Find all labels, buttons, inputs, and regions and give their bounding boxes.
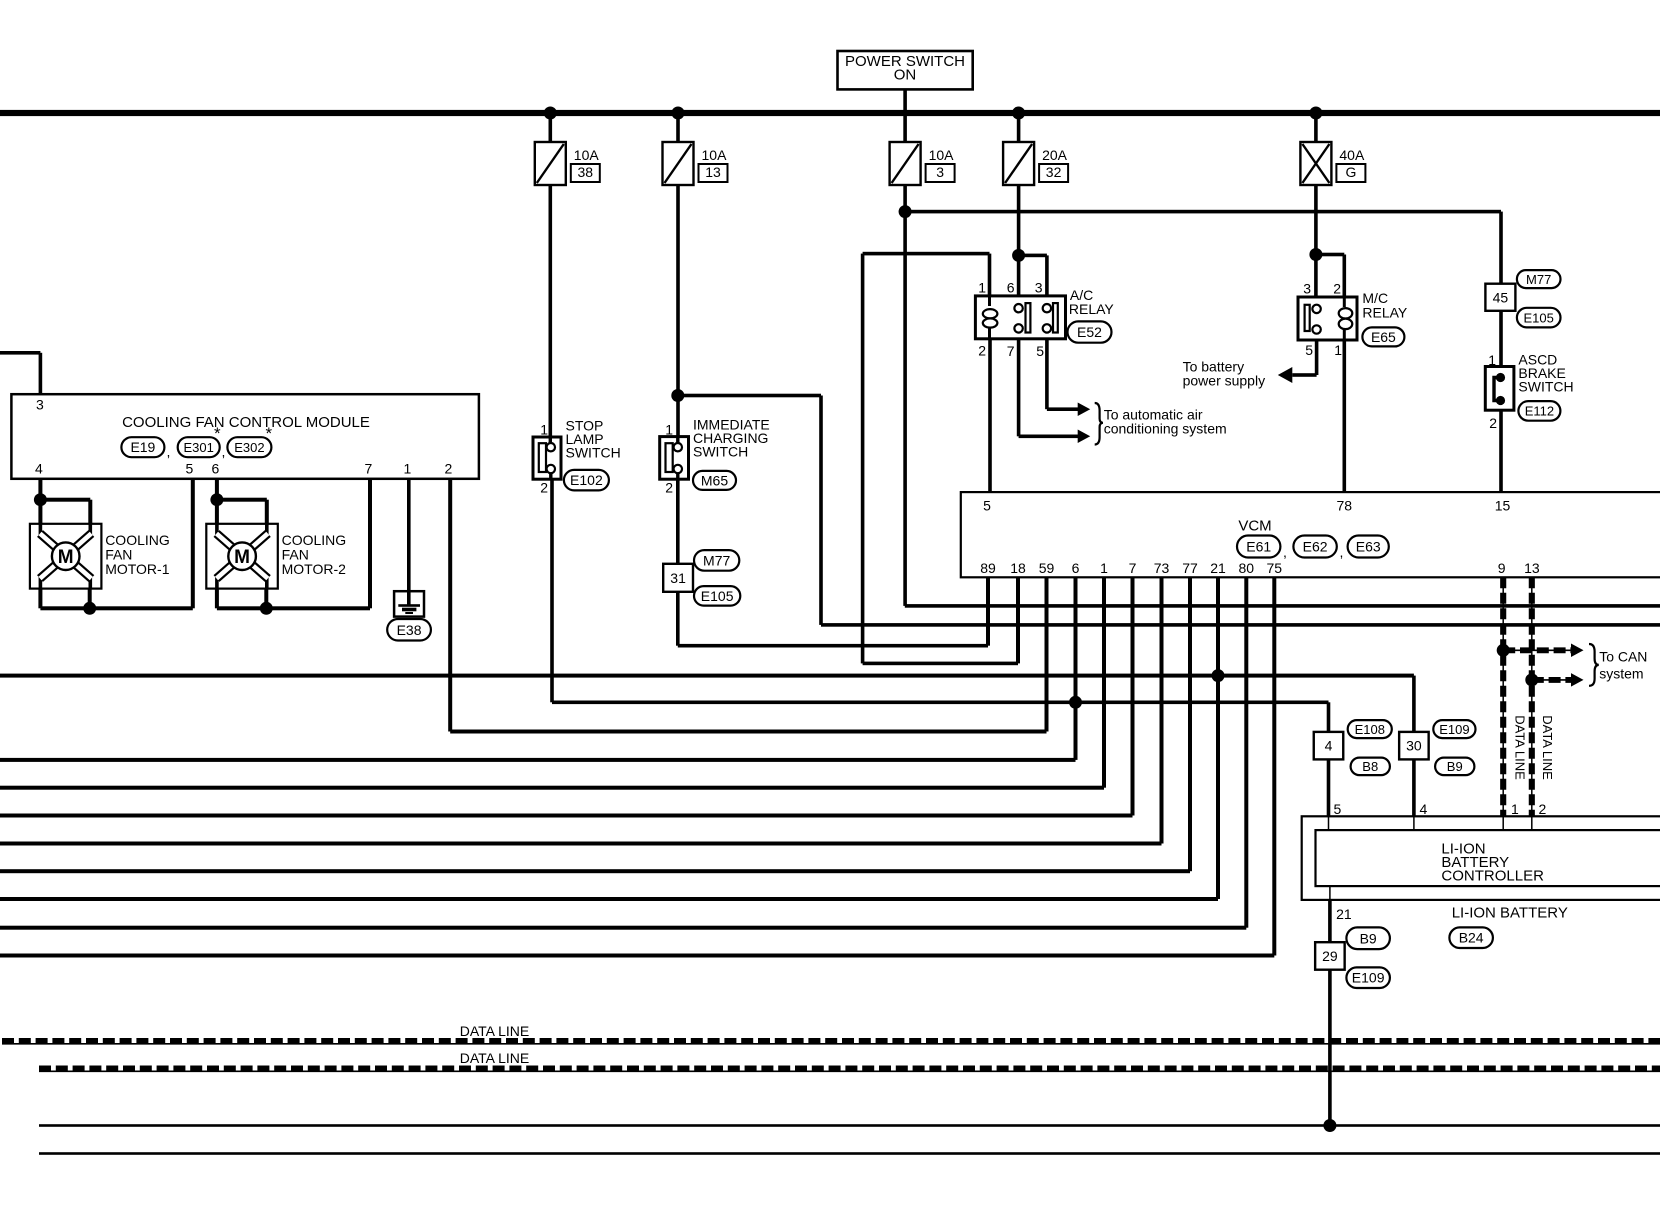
brace for A/C system arrows bbox=[1095, 403, 1103, 445]
svg-text:E109: E109 bbox=[1352, 970, 1385, 986]
wire motor 2 to module pin 7 bbox=[215, 589, 219, 609]
svg-text:77: 77 bbox=[1182, 560, 1198, 576]
svg-text:1: 1 bbox=[1334, 342, 1342, 358]
svg-text:4: 4 bbox=[1325, 738, 1333, 754]
connector E65 bbox=[1362, 327, 1404, 346]
connector B9 at 30 bbox=[1435, 758, 1474, 776]
svg-text:5: 5 bbox=[186, 461, 194, 477]
wire fuse 13 to immediate charging switch pin 1 bbox=[676, 185, 680, 437]
wire bus to fuse 32 bbox=[1017, 113, 1021, 142]
svg-text:RELAY: RELAY bbox=[1362, 305, 1408, 321]
svg-text:MOTOR-1: MOTOR-1 bbox=[105, 561, 170, 577]
ASCD brake switch E112 bbox=[1485, 367, 1514, 411]
svg-text:,: , bbox=[1340, 544, 1344, 560]
svg-text:80: 80 bbox=[1239, 560, 1255, 576]
svg-text:system: system bbox=[1599, 666, 1643, 682]
svg-text:40A: 40A bbox=[1339, 147, 1365, 163]
svg-text:E301: E301 bbox=[184, 440, 214, 455]
svg-text:5: 5 bbox=[1036, 343, 1044, 359]
junction on ground bus bbox=[1323, 1119, 1336, 1132]
A/C relay E52 bbox=[975, 296, 1065, 339]
svg-text:E108: E108 bbox=[1355, 722, 1385, 737]
wire bus down to connector 30 bbox=[1412, 676, 1416, 732]
connector E105 at 31 bbox=[694, 586, 740, 606]
wire module pin 1 to ground bbox=[407, 479, 411, 591]
wire fuse 32 to A/C relay bbox=[1017, 185, 1021, 296]
svg-text:,: , bbox=[1283, 544, 1287, 560]
wire stop lamp line down to connector 4 bbox=[1327, 702, 1331, 732]
svg-text:5: 5 bbox=[1305, 342, 1313, 358]
svg-text:*: * bbox=[214, 424, 221, 443]
ground E38 bbox=[394, 591, 424, 616]
svg-text:M77: M77 bbox=[703, 552, 730, 568]
cooling fan motor 2 bbox=[206, 524, 277, 589]
wire fuse 3 run to right edge bbox=[905, 604, 1660, 608]
brace for CAN arrows bbox=[1589, 644, 1599, 686]
wire fuse 38 to stop lamp switch pin 1 bbox=[549, 185, 553, 437]
svg-text:4: 4 bbox=[1420, 801, 1428, 817]
connector E62 bbox=[1293, 536, 1336, 558]
A/C relay contact 6-7 bbox=[1014, 304, 1022, 312]
VCM E61 E62 E63 bbox=[961, 492, 1660, 577]
connector E301 bbox=[178, 437, 220, 457]
svg-text:13: 13 bbox=[705, 164, 721, 180]
connector B8 bbox=[1351, 758, 1390, 776]
svg-text:SWITCH: SWITCH bbox=[693, 444, 748, 460]
svg-text:20A: 20A bbox=[1042, 147, 1068, 163]
wire VCM pin 1 run bbox=[1102, 577, 1106, 787]
svg-text:1: 1 bbox=[1100, 560, 1108, 576]
svg-text:2: 2 bbox=[1489, 415, 1497, 431]
arrow to automatic air conditioning (upper) bbox=[1078, 402, 1091, 416]
connector E102 bbox=[564, 470, 609, 491]
main power bus (POWER SWITCH ON feed) bbox=[0, 110, 1660, 116]
svg-text:5: 5 bbox=[1334, 801, 1342, 817]
svg-text:ON: ON bbox=[894, 67, 917, 84]
wire connector 29 to ground bus bbox=[1328, 970, 1332, 1126]
wire immediate charging run to right edge (VCM pin 80 feed) bbox=[821, 623, 1660, 627]
wire VCM pin 21 run / battery controller pin 4 bus bbox=[1216, 577, 1220, 899]
dashed arrow to CAN system 1 bbox=[1503, 649, 1571, 651]
svg-text:DATA LINE: DATA LINE bbox=[1513, 715, 1528, 780]
wire VCM pin 80 down-left run bbox=[1244, 577, 1248, 927]
wire module pin 4 to motor 1 bbox=[38, 479, 42, 524]
svg-text:5: 5 bbox=[983, 498, 991, 514]
svg-text:10A: 10A bbox=[574, 147, 600, 163]
wire M/C relay pin 5 to battery power supply arrow bbox=[1315, 340, 1319, 375]
svg-text:MOTOR-2: MOTOR-2 bbox=[282, 561, 347, 577]
svg-text:M: M bbox=[234, 547, 250, 568]
wire connector 30 to controller pin 4 bbox=[1412, 759, 1416, 816]
svg-text:SWITCH: SWITCH bbox=[1518, 379, 1573, 395]
svg-text:3: 3 bbox=[1303, 281, 1311, 297]
fuse 40A G bbox=[1300, 142, 1331, 185]
svg-text:E102: E102 bbox=[570, 472, 603, 488]
svg-text:10A: 10A bbox=[929, 147, 955, 163]
svg-text:conditioning system: conditioning system bbox=[1104, 421, 1227, 437]
svg-text:LI-ION BATTERY: LI-ION BATTERY bbox=[1452, 905, 1568, 922]
li-ion battery controller box bbox=[1316, 830, 1660, 886]
ground rail 1 bbox=[39, 1124, 1660, 1127]
svg-text:VCM: VCM bbox=[1238, 518, 1271, 535]
svg-text:,: , bbox=[222, 444, 226, 460]
junction VCM pin 6 with stop-lamp/controller-5 line bbox=[1069, 696, 1082, 709]
junction at immediate charging switch feed bbox=[671, 389, 684, 402]
svg-text:M77: M77 bbox=[1526, 272, 1551, 287]
M/C relay coil bbox=[1343, 297, 1346, 307]
svg-text:4: 4 bbox=[35, 461, 43, 477]
wire VCM pin 73 run bbox=[1160, 577, 1164, 843]
connector 4 (E108/B8) bbox=[1314, 732, 1344, 760]
svg-text:10A: 10A bbox=[702, 147, 728, 163]
svg-text:31: 31 bbox=[670, 570, 686, 586]
wire M/C relay pin 1 to VCM pin 78 bbox=[1343, 340, 1347, 492]
svg-text:18: 18 bbox=[1010, 560, 1026, 576]
svg-text:15: 15 bbox=[1495, 498, 1511, 514]
svg-text:M65: M65 bbox=[701, 472, 728, 488]
wire connector 31 to VCM pin 89 bbox=[676, 592, 680, 646]
svg-text:73: 73 bbox=[1154, 560, 1170, 576]
connector E61 bbox=[1237, 536, 1280, 558]
svg-text:DATA LINE: DATA LINE bbox=[1540, 715, 1555, 780]
wire VCM pin 18 run (from A/C relay pin 1) bbox=[863, 662, 1018, 666]
svg-text:75: 75 bbox=[1267, 560, 1283, 576]
M/C relay E65 bbox=[1298, 297, 1357, 340]
junction CAN branch 1 bbox=[1497, 644, 1510, 657]
dashed arrow to CAN system 2 bbox=[1532, 679, 1572, 681]
connector M65 bbox=[693, 471, 736, 490]
svg-text:7: 7 bbox=[1007, 343, 1015, 359]
POWER SWITCH ON box bbox=[838, 51, 973, 89]
svg-text:2: 2 bbox=[978, 343, 986, 359]
svg-text:7: 7 bbox=[1129, 560, 1137, 576]
junction motor 2 positive bbox=[210, 493, 223, 506]
svg-text:B9: B9 bbox=[1360, 930, 1377, 946]
cooling fan motor 1 bbox=[30, 524, 102, 589]
arrow to automatic air conditioning (lower) bbox=[1078, 430, 1091, 444]
junction motor 1 positive bbox=[34, 493, 47, 506]
wire branch to A/C relay pin 3 bbox=[1019, 254, 1047, 258]
thin feedthrough wires into controller bbox=[1328, 816, 1330, 830]
svg-text:32: 32 bbox=[1046, 164, 1062, 180]
svg-text:3: 3 bbox=[36, 397, 44, 413]
fuse 10A 3 bbox=[890, 142, 921, 185]
svg-text:1: 1 bbox=[540, 422, 548, 438]
wire into cooling fan control module pin 3 bbox=[0, 351, 40, 355]
connector M77 at 31 bbox=[694, 550, 739, 571]
svg-text:CONTROLLER: CONTROLLER bbox=[1441, 868, 1544, 885]
connector 31 (M77/E105) bbox=[663, 564, 693, 592]
junction motor 1 negative bbox=[83, 602, 96, 615]
junction motor 2 negative bbox=[260, 602, 273, 615]
wire A/C relay pin 2 to VCM pin 5 bbox=[988, 339, 992, 492]
svg-text:45: 45 bbox=[1493, 289, 1509, 305]
wire VCM pin 75 down-left run bbox=[1272, 577, 1276, 955]
connector E112 bbox=[1518, 401, 1560, 421]
wire VCM pin 6 run bbox=[1074, 577, 1078, 760]
wire module pin 6 to motor 2 bbox=[215, 479, 219, 524]
wire A/C relay pin 7 to A/C system arrow bbox=[1017, 339, 1021, 437]
connector B24 bbox=[1449, 927, 1493, 948]
svg-text:*: * bbox=[266, 424, 273, 443]
svg-text:21: 21 bbox=[1336, 906, 1352, 922]
svg-text:E65: E65 bbox=[1371, 329, 1396, 345]
svg-text:E63: E63 bbox=[1356, 539, 1381, 555]
svg-text:38: 38 bbox=[578, 164, 594, 180]
M/C relay contact 3-5 bbox=[1305, 305, 1310, 331]
svg-text:2: 2 bbox=[665, 480, 673, 496]
fuse 10A 13 bbox=[663, 142, 694, 185]
svg-text:1: 1 bbox=[1511, 801, 1519, 817]
cooling fan control module box bbox=[11, 394, 479, 479]
svg-text:30: 30 bbox=[1406, 738, 1422, 754]
connector E108 bbox=[1348, 720, 1392, 738]
svg-text:To CAN: To CAN bbox=[1599, 649, 1647, 665]
junction on bus at fuse 38 bbox=[544, 107, 557, 120]
connector E105 at 45 bbox=[1517, 308, 1561, 328]
svg-text:E302: E302 bbox=[234, 440, 264, 455]
svg-text:M: M bbox=[58, 547, 74, 568]
wire bus to fuse 13 bbox=[676, 113, 680, 142]
wire VCM pin 77 run bbox=[1188, 577, 1192, 871]
svg-text:59: 59 bbox=[1039, 560, 1055, 576]
wire fuse 3 down bbox=[903, 185, 907, 606]
svg-text:13: 13 bbox=[1524, 560, 1540, 576]
junction CAN branch 2 bbox=[1525, 673, 1538, 686]
wire from A/C relay pin 1 to the left and down (to VCM pin 18 run) bbox=[863, 252, 990, 256]
junction on bus at fuse G bbox=[1309, 107, 1322, 120]
svg-text:E61: E61 bbox=[1246, 539, 1271, 555]
svg-text:E105: E105 bbox=[701, 588, 734, 604]
svg-text:1: 1 bbox=[404, 461, 412, 477]
wire bus to fuse 38 bbox=[549, 113, 553, 142]
connector E52 bbox=[1068, 321, 1112, 342]
connector E63 bbox=[1348, 536, 1389, 558]
svg-text:89: 89 bbox=[980, 560, 996, 576]
junction on bus at fuse 13 bbox=[672, 107, 685, 120]
svg-text:RELAY: RELAY bbox=[1069, 301, 1115, 317]
wire stop lamp switch pin 2 to VCM pin 6 junction bbox=[550, 479, 554, 702]
DATA LINE horizontal 1 bbox=[2, 1043, 1660, 1045]
ground rail 2 bbox=[39, 1152, 1660, 1155]
svg-text:COOLING FAN CONTROL MODULE: COOLING FAN CONTROL MODULE bbox=[122, 414, 370, 431]
svg-text:3: 3 bbox=[1035, 280, 1043, 296]
li-ion battery outer box B24 bbox=[1302, 816, 1660, 900]
junction A/C relay feed bbox=[1012, 249, 1025, 262]
svg-text:E19: E19 bbox=[130, 439, 155, 455]
wire branch to M/C relay pin 2 bbox=[1316, 253, 1344, 257]
wire fuse G to M/C relay bbox=[1314, 185, 1318, 297]
A/C relay coil bbox=[988, 296, 991, 306]
wire A/C relay pin 5 to A/C system arrow bbox=[1045, 339, 1049, 409]
DATA LINE from VCM pin 9 bbox=[1502, 577, 1504, 816]
wire module pin 2 to VCM pin 59 bbox=[448, 479, 452, 732]
connector E109 at 30 bbox=[1433, 720, 1475, 738]
svg-text:power supply: power supply bbox=[1183, 373, 1266, 389]
svg-text:DATA LINE: DATA LINE bbox=[460, 1023, 530, 1039]
wire from POWER SWITCH ON box to bus bbox=[903, 89, 907, 142]
svg-text:9: 9 bbox=[1498, 560, 1506, 576]
fuse 10A 38 bbox=[535, 142, 566, 185]
connector E109 at 29 bbox=[1346, 967, 1390, 988]
wire branch to VCM pin 80 (down at x=821) bbox=[678, 394, 821, 398]
wire motor 1 to module pin 5 bbox=[38, 589, 42, 609]
DATA LINE from VCM pin 13 bbox=[1531, 577, 1533, 816]
connector 30 (E109/B9) bbox=[1399, 732, 1429, 760]
connector E302 bbox=[227, 437, 271, 457]
svg-text:B8: B8 bbox=[1362, 759, 1378, 774]
junction on bus at fuse 32 bbox=[1012, 107, 1025, 120]
junction VCM pin 21 on bus bbox=[1212, 669, 1225, 682]
wire connector 45 to ASCD brake switch pin 1 bbox=[1499, 311, 1503, 367]
svg-text:E109: E109 bbox=[1439, 722, 1469, 737]
fuse 20A 32 bbox=[1003, 142, 1034, 185]
arrow to battery power supply bbox=[1278, 367, 1293, 383]
svg-text:29: 29 bbox=[1322, 948, 1338, 964]
junction M/C relay feed bbox=[1309, 248, 1322, 261]
svg-text:G: G bbox=[1345, 164, 1356, 180]
svg-text:6: 6 bbox=[212, 461, 220, 477]
connector 45 (M77/E105) bbox=[1485, 284, 1515, 311]
wire bus to fuse G bbox=[1314, 113, 1318, 142]
svg-text:1: 1 bbox=[978, 280, 986, 296]
svg-text:3: 3 bbox=[936, 164, 944, 180]
svg-text:DATA LINE: DATA LINE bbox=[460, 1050, 530, 1066]
svg-text:7: 7 bbox=[365, 461, 373, 477]
connector B9 at 29 bbox=[1346, 927, 1390, 949]
wire VCM pin 7 run bbox=[1131, 577, 1135, 815]
svg-text:E52: E52 bbox=[1077, 324, 1102, 340]
A/C relay contact 3-5 bbox=[1043, 304, 1051, 312]
connector 29 (B9/E109) bbox=[1315, 942, 1345, 970]
svg-text:2: 2 bbox=[1539, 801, 1547, 817]
DATA LINE horizontal 2 bbox=[39, 1070, 1660, 1072]
connector E38 bbox=[387, 619, 431, 641]
svg-text:78: 78 bbox=[1337, 498, 1353, 514]
connector E19 bbox=[121, 437, 164, 457]
svg-text:2: 2 bbox=[445, 461, 453, 477]
svg-text:E105: E105 bbox=[1524, 310, 1554, 325]
svg-text:E38: E38 bbox=[397, 622, 422, 638]
svg-text:E112: E112 bbox=[1525, 404, 1554, 419]
svg-text:E62: E62 bbox=[1303, 539, 1328, 555]
svg-text:6: 6 bbox=[1007, 280, 1015, 296]
svg-text:6: 6 bbox=[1072, 560, 1080, 576]
svg-text:2: 2 bbox=[1333, 281, 1341, 297]
wire immediate charging switch pin 2 to connector 31 bbox=[676, 479, 680, 564]
svg-text:2: 2 bbox=[540, 480, 548, 496]
svg-text:B24: B24 bbox=[1459, 930, 1484, 946]
svg-text:21: 21 bbox=[1210, 560, 1226, 576]
connector M77 at 45 bbox=[1517, 270, 1561, 288]
junction fuse 3 branch bbox=[899, 205, 912, 218]
svg-text:SWITCH: SWITCH bbox=[566, 445, 621, 461]
wire connector 4 to controller pin 5 bbox=[1327, 759, 1331, 816]
wire fuse 3 branch to connector 45 (M77/E105) bbox=[905, 210, 1501, 214]
svg-text:,: , bbox=[167, 444, 171, 460]
svg-text:B9: B9 bbox=[1447, 759, 1463, 774]
